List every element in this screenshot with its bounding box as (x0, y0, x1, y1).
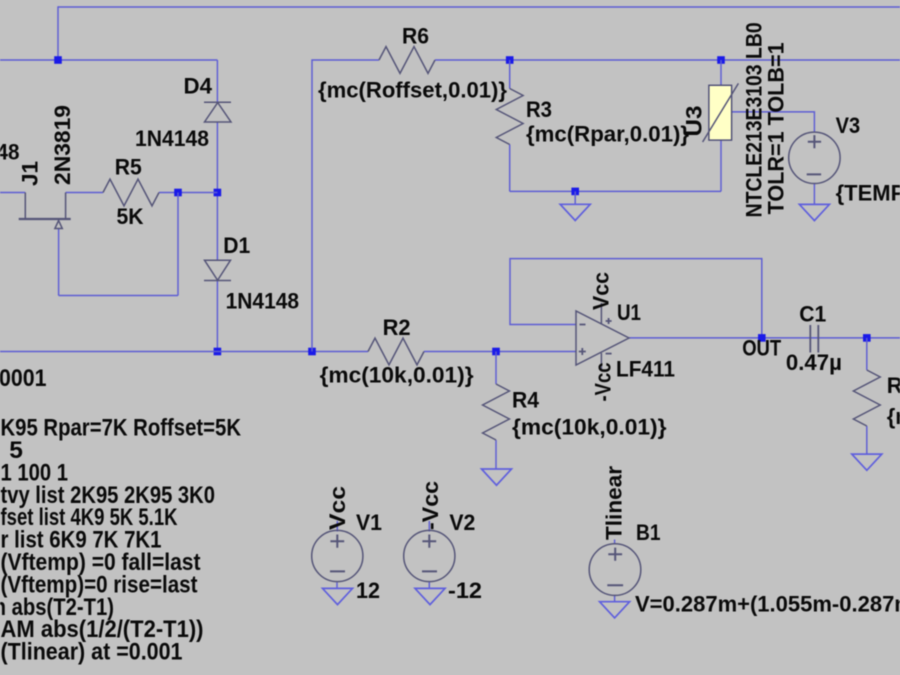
svg-text:TOLR=1 TOLB=1: TOLR=1 TOLB=1 (764, 42, 789, 214)
wire R5 right (159, 192, 217, 194)
capacitor C1 0.47u (786, 302, 842, 376)
behavioral source B1 Tlinear (589, 466, 900, 618)
op-amp U1 LF411 (576, 272, 675, 402)
node junction at 509.7,60 (506, 56, 514, 64)
svg-text:0001: 0001 (0, 365, 47, 392)
wire R1 top lead (866, 338, 868, 370)
svg-text:-Vcc: -Vcc (418, 481, 443, 530)
wire main right of R2 (424, 351, 576, 353)
wire JFET drain (0, 192, 25, 194)
node junction at 496,351 (492, 348, 500, 356)
svg-text:R2: R2 (383, 315, 411, 340)
thermistor U3 NTCLE213E3103 (682, 22, 789, 217)
svg-text:U1: U1 (617, 300, 641, 325)
svg-text:K95 Rpar=7K Roffset=5K: K95 Rpar=7K Roffset=5K (1, 415, 242, 442)
spice directive text block (0, 365, 241, 666)
wire top rail (58, 6, 900, 8)
wire R3 top lead (509, 60, 511, 89)
svg-text:{mc(10k,0.01)}: {mc(10k,0.01)} (512, 415, 667, 440)
op-amp feedback wire (510, 259, 762, 338)
svg-text:-Vcc: -Vcc (591, 363, 616, 402)
svg-text:{mc(Rpar,0.01)}: {mc(Rpar,0.01)} (526, 122, 689, 147)
node junction at 217,192 (214, 189, 222, 197)
wire D1 to main (216, 281, 218, 352)
node junction at 312,351 (308, 348, 316, 356)
wire U3 bottom lead (720, 140, 722, 191)
node junction at 58,60 (54, 56, 62, 64)
svg-text:-12: -12 (448, 578, 482, 603)
svg-text:{mc(10k,0.01)}: {mc(10k,0.01)} (320, 363, 474, 388)
wire R3 bottom to U3 (510, 190, 721, 192)
wire main left (0, 351, 368, 353)
wire gate loop up (177, 193, 179, 296)
svg-text:V1: V1 (356, 510, 382, 535)
resistor R3 (496, 89, 689, 147)
wire R6 left vertical (312, 60, 379, 352)
svg-text:OUT: OUT (742, 336, 781, 361)
voltage source V3 {TEMP} (789, 113, 900, 206)
diode D1 1N4148 (204, 233, 299, 314)
svg-text:Tlinear: Tlinear (602, 466, 627, 540)
voltage source V2 -12 (404, 481, 482, 605)
wire V3 bottom lead (813, 183, 815, 204)
svg-text:R3: R3 (526, 97, 552, 122)
svg-text:5K: 5K (117, 204, 144, 229)
svg-text:12: 12 (356, 578, 380, 603)
wire R4 bottom lead (495, 440, 497, 469)
svg-text:C1: C1 (799, 302, 826, 327)
resistor R2 (320, 315, 474, 388)
svg-text:2N3819: 2N3819 (50, 105, 75, 185)
ground R4 (482, 469, 512, 485)
wire left upper (0, 59, 217, 61)
svg-text:(Tlinear) at =0.001: (Tlinear) at =0.001 (1, 639, 183, 666)
wire R3 bottom lead (509, 145, 511, 192)
svg-text:V=0.287m+(1.055m-0.287m: V=0.287m+(1.055m-0.287m (635, 592, 900, 617)
svg-text:R4: R4 (512, 388, 540, 413)
wire top rail drop (57, 6, 59, 60)
svg-text:D4: D4 (184, 74, 213, 99)
svg-text:Vcc: Vcc (325, 486, 350, 530)
svg-text:1N4148: 1N4148 (135, 126, 209, 151)
resistor R5 5K (103, 155, 159, 230)
node junction at 575,191 (571, 188, 579, 196)
svg-text:V2: V2 (449, 510, 475, 535)
svg-text:0.47µ: 0.47µ (786, 350, 842, 375)
transistor J1 JFET 2N3819 (0, 105, 75, 229)
node junction at 217,351 (214, 348, 222, 356)
svg-text:D1: D1 (223, 233, 250, 258)
wire D4 top lead (216, 60, 218, 102)
svg-text:R1: R1 (887, 373, 900, 398)
node junction at 866.8,337.9 (863, 334, 871, 342)
ground R1 (852, 454, 882, 470)
resistor R1 right edge (853, 370, 900, 429)
wire gate down (58, 229, 60, 296)
svg-text:1N4148: 1N4148 (226, 289, 300, 314)
svg-text:V3: V3 (836, 113, 861, 138)
wire op-amp output (629, 337, 900, 339)
wire U3 temp pin to V3 (732, 112, 815, 132)
svg-text:R5: R5 (115, 155, 142, 180)
diode D4 1N4148 (135, 74, 231, 152)
wire R4 top lead (495, 352, 497, 385)
svg-text:U3: U3 (682, 106, 707, 137)
wire JFET source to R5 (66, 192, 103, 194)
wire R6 right rail (435, 59, 900, 61)
voltage source V1 12 (312, 486, 382, 605)
resistor R4 (483, 384, 667, 440)
node junction OUT at 761.8,337.9 (758, 334, 766, 342)
resistor R6 (318, 24, 507, 103)
svg-text:B1: B1 (636, 520, 661, 545)
wire U3 top lead (720, 60, 722, 85)
svg-text:{mc(10k,0.01)}: {mc(10k,0.01)} (887, 404, 900, 429)
svg-text:48: 48 (0, 140, 20, 165)
ground V3 (799, 204, 829, 220)
node junction at 721,60 (717, 56, 725, 64)
node junction at 178,192 (174, 189, 182, 197)
wire R3 ground lead (574, 191, 576, 204)
wire gate loop bottom (59, 295, 178, 297)
wire R1 bottom lead (866, 426, 868, 454)
svg-text:Vcc: Vcc (589, 272, 614, 310)
wire D4 to D1 (216, 122, 218, 260)
svg-text:R6: R6 (402, 24, 429, 49)
svg-text:LF411: LF411 (616, 357, 675, 382)
svg-text:{mc(Roffset,0.01)}: {mc(Roffset,0.01)} (318, 78, 507, 103)
svg-text:{TEMP}: {TEMP} (836, 181, 900, 206)
ground under R3 net (560, 204, 590, 220)
svg-text:J1: J1 (18, 161, 43, 186)
